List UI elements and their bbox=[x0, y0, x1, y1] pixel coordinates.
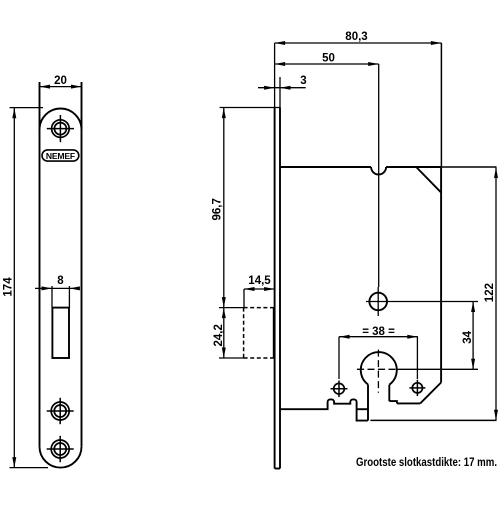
follower hole with crosshair bbox=[366, 287, 478, 316]
dimension 122 (case height) bbox=[370, 167, 498, 420]
strike notch in case top edge bbox=[371, 167, 386, 175]
svg-text:3: 3 bbox=[300, 75, 306, 87]
euro cylinder cutout bbox=[357, 350, 478, 421]
svg-text:= 38 =: = 38 = bbox=[362, 326, 395, 338]
screw hole bottom lower with crosshair bbox=[47, 436, 74, 462]
svg-text:14,5: 14,5 bbox=[248, 275, 271, 287]
svg-text:80,3: 80,3 bbox=[345, 31, 367, 43]
dimension 50 (backset) bbox=[275, 53, 379, 288]
dimension 8 (latch cutout width) bbox=[35, 275, 80, 308]
dimension 24,2 (latch height) bbox=[213, 308, 243, 358]
NEMEF logo bbox=[42, 150, 79, 161]
faceplate side view strip bbox=[275, 107, 280, 468]
fixing screw hole left with crosshair bbox=[331, 337, 348, 397]
dimension 80,3 (case depth) bbox=[275, 31, 442, 167]
svg-text:122: 122 bbox=[484, 283, 496, 302]
dimension 14,5 (latch depth) bbox=[244, 275, 275, 308]
faceplate front view outline bbox=[40, 82, 82, 468]
svg-text:174: 174 bbox=[3, 277, 15, 297]
dimension 34 (follower to cylinder) bbox=[462, 302, 475, 370]
svg-text:34: 34 bbox=[462, 330, 474, 343]
svg-text:NEMEF: NEMEF bbox=[46, 151, 75, 161]
svg-text:Grootste slotkastdikte: 17 mm.: Grootste slotkastdikte: 17 mm. bbox=[356, 457, 497, 469]
dimension 20 (faceplate width) bbox=[40, 75, 82, 89]
screw hole bottom upper with crosshair bbox=[47, 398, 74, 424]
dimension 174 (faceplate height) bbox=[3, 108, 49, 468]
svg-text:24,2: 24,2 bbox=[213, 324, 225, 346]
dimension 96,7 (top to latch) bbox=[212, 108, 281, 308]
dimension =38= (screw spacing) bbox=[339, 326, 418, 339]
lock case outline bbox=[280, 167, 441, 421]
svg-text:20: 20 bbox=[54, 75, 67, 87]
latchbolt hidden outline (dashed) bbox=[244, 308, 275, 358]
svg-text:8: 8 bbox=[57, 275, 64, 287]
svg-text:96,7: 96,7 bbox=[212, 198, 224, 220]
fixing screw hole right with crosshair bbox=[409, 337, 425, 396]
dimension 3 (faceplate thickness) bbox=[258, 43, 307, 107]
svg-text:50: 50 bbox=[322, 53, 335, 65]
latch cutout rectangle bbox=[52, 308, 69, 358]
screw hole top with crosshair bbox=[47, 115, 74, 142]
